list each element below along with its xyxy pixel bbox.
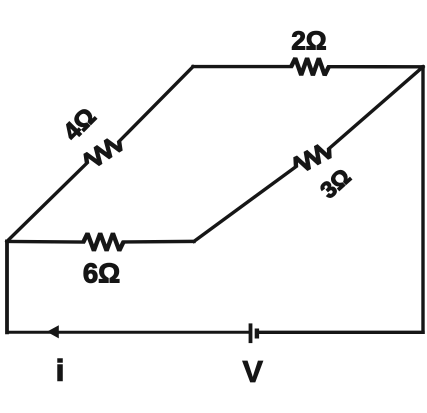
svg-text:2Ω: 2Ω <box>291 26 326 56</box>
svg-text:4Ω: 4Ω <box>58 103 102 147</box>
svg-text:6Ω: 6Ω <box>83 258 120 289</box>
svg-text:V: V <box>242 354 263 389</box>
svg-text:i: i <box>56 355 64 388</box>
svg-text:3Ω: 3Ω <box>315 163 356 203</box>
